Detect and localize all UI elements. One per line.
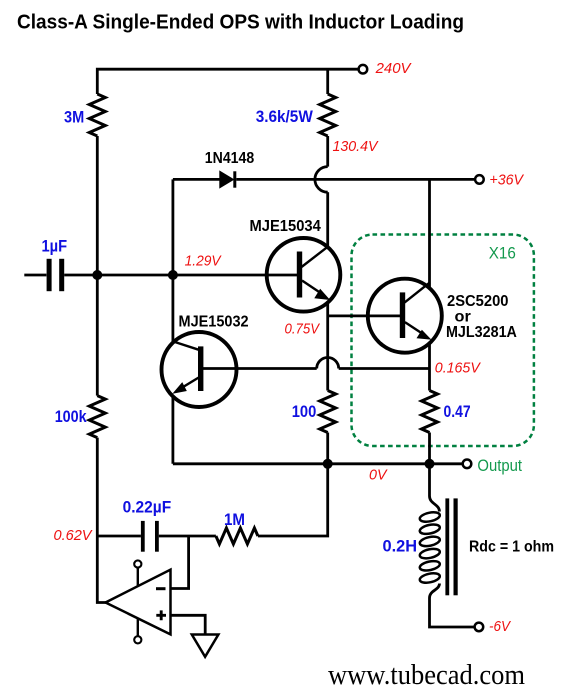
svg-text:MJE15032: MJE15032	[179, 314, 249, 331]
svg-text:0V: 0V	[369, 467, 388, 484]
ground	[192, 635, 219, 657]
wire hop over +36V rail	[315, 167, 328, 193]
wire hop over emitter line	[317, 358, 339, 369]
node C 0V left	[323, 459, 333, 469]
svg-text:1M: 1M	[224, 511, 245, 529]
wire diode drop x172.9	[171, 179, 174, 341]
svg-text:3M: 3M	[64, 109, 84, 127]
svg-text:240V: 240V	[375, 60, 413, 77]
terminal 240V	[359, 65, 368, 74]
svg-text:100k: 100k	[55, 408, 88, 426]
wire base bus y275	[64, 274, 267, 277]
transistor Q4 2SC5200	[368, 279, 442, 353]
inductor 0.2H	[419, 464, 475, 627]
wire 1M to minus corner	[159, 535, 216, 538]
op-amp power pin top	[137, 567, 139, 586]
resistor 3M	[89, 94, 105, 136]
wire +36V rail	[173, 178, 475, 181]
svg-text:or: or	[455, 309, 471, 326]
resistor 100k	[89, 396, 105, 438]
node B base bus	[168, 270, 178, 280]
resistor 1M	[216, 528, 258, 544]
svg-text:-6V: -6V	[489, 618, 512, 635]
wire Q2 base run	[237, 367, 430, 370]
svg-text:0.22µF: 0.22µF	[123, 499, 172, 517]
svg-text:3.6k/5W: 3.6k/5W	[256, 108, 313, 126]
transistor Q3 MJE15032	[162, 332, 237, 407]
svg-text:MJL3281A: MJL3281A	[446, 324, 517, 341]
wire Q2 emitter down	[171, 397, 174, 464]
svg-text:MJE15034: MJE15034	[250, 218, 322, 235]
svg-text:2SC5200: 2SC5200	[447, 293, 509, 310]
terminal -6V	[475, 623, 484, 632]
wire Q1 emitter down	[326, 302, 329, 391]
svg-text:130.4V: 130.4V	[333, 138, 380, 155]
wire hop to Q1 collector	[326, 192, 329, 247]
svg-text:+36V: +36V	[489, 172, 524, 189]
wire non-inverting to ground	[171, 615, 206, 634]
wire 2SC collector drop	[428, 179, 431, 287]
terminal +36V	[475, 175, 484, 184]
resistor 0.47	[422, 391, 438, 433]
wire 3.6k bottom to hop	[326, 136, 329, 167]
wire to inverting input	[171, 536, 189, 589]
svg-text:X16: X16	[489, 245, 516, 263]
resistor 100	[320, 391, 336, 433]
wire left rail upper	[96, 136, 99, 396]
capacitor 1uF	[47, 259, 52, 291]
terminal Output	[463, 460, 472, 469]
svg-text:www.tubecad.com: www.tubecad.com	[328, 659, 525, 691]
svg-text:1N4148: 1N4148	[205, 150, 255, 167]
svg-text:0.75V: 0.75V	[285, 321, 321, 338]
svg-text:0.165V: 0.165V	[435, 360, 482, 377]
wire feedback drop	[258, 464, 328, 536]
inductor core bars	[445, 498, 449, 595]
diode 1N4148	[220, 171, 234, 187]
node A input	[92, 270, 102, 280]
svg-text:1µF: 1µF	[42, 238, 68, 256]
wire 3.6k top stub	[326, 69, 329, 94]
X16 multiplier dashed box	[352, 235, 534, 447]
svg-text:100: 100	[292, 403, 317, 421]
svg-text:Output: Output	[477, 457, 522, 475]
wire 100 to rail	[326, 433, 329, 464]
wire left rail lower	[97, 438, 106, 603]
resistor 3.6k/5W	[320, 94, 336, 136]
node D 0V right	[425, 459, 435, 469]
svg-text:0.62V: 0.62V	[54, 527, 94, 544]
capacitor 0.22uF	[141, 521, 145, 552]
wire cap to rail	[97, 535, 141, 538]
wire 0.47 to rail	[428, 433, 431, 464]
op-amp U1	[106, 570, 171, 635]
svg-text:Rdc = 1 ohm: Rdc = 1 ohm	[469, 539, 554, 556]
svg-text:0.2H: 0.2H	[383, 538, 418, 556]
wire 0V rail	[173, 462, 463, 465]
svg-text:1.29V: 1.29V	[185, 252, 223, 269]
wire Q1 emitter to 2SC base	[328, 314, 368, 317]
wire top rail	[97, 69, 358, 94]
svg-text:Class-A Single-Ended OPS with: Class-A Single-Ended OPS with Inductor L…	[17, 12, 464, 34]
wire input lead	[24, 274, 46, 277]
transistor Q2 MJE15034	[267, 238, 341, 312]
op-amp power pin bottom	[137, 618, 139, 637]
wire 2SC emitter down	[428, 344, 431, 391]
svg-text:0.47: 0.47	[444, 403, 471, 421]
